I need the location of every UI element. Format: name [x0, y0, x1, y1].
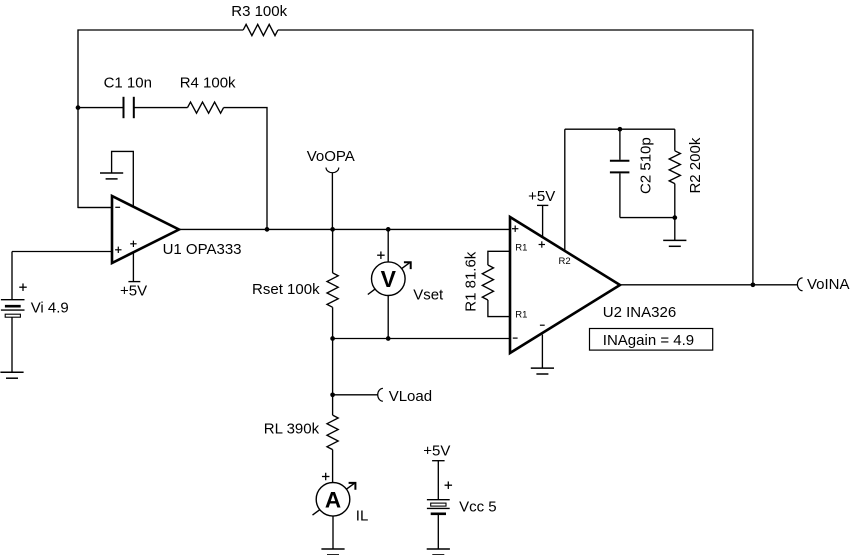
svg-text:U1 OPA333: U1 OPA333 [163, 241, 242, 258]
svg-text:+5V: +5V [528, 188, 555, 205]
svg-text:R1: R1 [515, 310, 527, 321]
svg-text:C2 510p: C2 510p [637, 137, 654, 194]
svg-text:R3 100k: R3 100k [231, 3, 287, 20]
svg-text:Vi 4.9: Vi 4.9 [31, 300, 69, 317]
svg-text:U2 INA326: U2 INA326 [603, 304, 676, 321]
svg-text:RL 390k: RL 390k [264, 420, 320, 437]
svg-text:Vcc 5: Vcc 5 [459, 499, 497, 516]
svg-text:+5V: +5V [120, 283, 147, 300]
svg-text:R1 81.6k: R1 81.6k [463, 251, 480, 312]
svg-text:R2: R2 [559, 256, 571, 267]
svg-text:VLoad: VLoad [389, 388, 432, 405]
svg-text:+5V: +5V [423, 442, 450, 459]
svg-text:R2 200k: R2 200k [687, 137, 704, 193]
svg-text:IL: IL [356, 507, 369, 524]
svg-text:Vset: Vset [413, 286, 444, 303]
svg-text:R4 100k: R4 100k [180, 74, 236, 91]
svg-text:INAgain = 4.9: INAgain = 4.9 [603, 332, 694, 349]
svg-text:A: A [325, 488, 341, 513]
svg-text:R1: R1 [515, 243, 527, 254]
svg-text:VoOPA: VoOPA [307, 148, 355, 165]
svg-text:Rset 100k: Rset 100k [252, 281, 320, 298]
svg-text:VoINA: VoINA [807, 276, 850, 293]
svg-text:V: V [381, 266, 397, 292]
svg-text:C1 10n: C1 10n [104, 74, 152, 91]
